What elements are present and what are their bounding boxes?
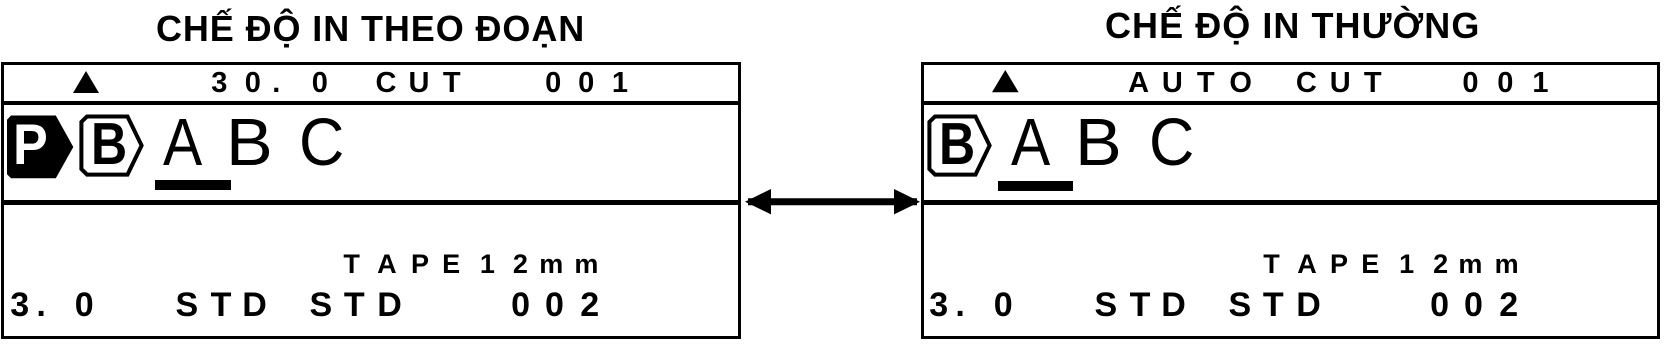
left panel divider line 2 <box>4 200 738 206</box>
right panel B-mode icon <box>923 108 998 183</box>
right panel divider line 2 <box>924 200 1657 206</box>
title: left panel heading <box>156 9 582 49</box>
left LCD panel frame <box>1 62 742 339</box>
right panel tape size text "TAPE12mm" <box>1263 251 1280 278</box>
left panel divider line 1 <box>4 101 738 106</box>
right panel main display text "ABC" <box>1011 110 1050 177</box>
right panel cursor triangle indicator <box>990 68 1020 94</box>
left panel cursor triangle indicator <box>71 69 101 95</box>
left panel bottom status text "3. 0 STD STD 002" <box>10 288 29 322</box>
left panel P-mode icon (filled pentagon tag with white P) <box>0 108 80 184</box>
left panel B letter in icon <box>91 116 127 175</box>
right panel divider line 1 <box>924 101 1657 106</box>
right LCD panel frame <box>921 62 1660 339</box>
left panel status row text "30. 0 CUT 001" <box>211 69 227 98</box>
left panel tape size text "TAPE12mm" <box>343 251 360 278</box>
left panel white P letter <box>13 117 48 175</box>
right panel status row text "AUTO CUT 001" <box>1128 69 1149 98</box>
right panel B letter in icon <box>939 116 975 175</box>
left panel main display text "ABC" <box>163 110 202 177</box>
right panel cursor underline under A <box>998 181 1073 191</box>
double-headed arrow between panels <box>744 186 921 218</box>
left panel B-mode icon (outlined pentagon tag with B) <box>75 108 150 183</box>
right panel bottom status text "3. 0 STD STD 002" <box>929 288 948 322</box>
left panel cursor underline under A <box>155 180 231 190</box>
title: right panel heading <box>1105 6 1479 46</box>
